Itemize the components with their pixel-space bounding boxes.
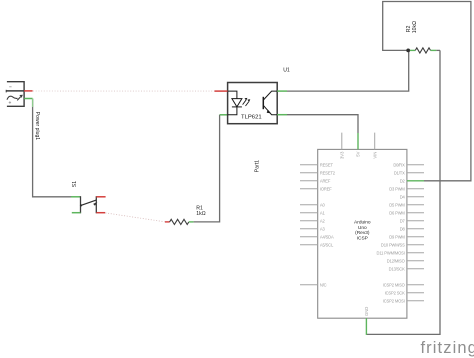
- R1 pin left (red): [165, 221, 170, 223]
- Arduino right pins: [407, 165, 424, 301]
- R2 zigzag: [415, 48, 430, 53]
- R1 pin right (green): [189, 221, 194, 223]
- svg-text:(Rev3): (Rev3): [355, 230, 370, 236]
- svg-text:Power plug1: Power plug1: [34, 112, 40, 140]
- svg-text:D10 PWM/SS: D10 PWM/SS: [381, 242, 405, 247]
- svg-text:ICSP: ICSP: [357, 236, 368, 242]
- svg-text:D5 PWM: D5 PWM: [389, 202, 405, 207]
- wire end green at plug: [32, 99, 34, 108]
- svg-text:TLP621: TLP621: [241, 115, 262, 121]
- svg-text:D6 PWM: D6 PWM: [389, 210, 405, 215]
- S1 pin bottom-left (green): [72, 212, 81, 214]
- S1 right contact bar: [95, 196, 97, 213]
- S1 pin bottom-right (red): [96, 212, 105, 214]
- svg-text:D0/RX: D0/RX: [393, 162, 405, 167]
- svg-text:D11 PWM/MOSI: D11 PWM/MOSI: [377, 250, 405, 255]
- resistor R1 1k: [165, 219, 194, 224]
- svg-text:IOREF: IOREF: [320, 186, 332, 191]
- svg-text:RESET2: RESET2: [320, 170, 336, 175]
- ratsnest switch to R1: [105, 213, 164, 222]
- S1 pin top-right (red): [96, 196, 105, 198]
- svg-text:1kΩ: 1kΩ: [196, 211, 205, 217]
- svg-text:VIN: VIN: [372, 152, 377, 159]
- wire R2 to Arduino GND: [366, 50, 440, 334]
- Arduino left pin labels: [320, 162, 336, 287]
- svg-text:D12/MISO: D12/MISO: [387, 258, 405, 263]
- optocoupler phototransistor Q: [263, 91, 277, 115]
- svg-text:A4/SDA: A4/SDA: [320, 234, 334, 239]
- optocoupler cathode pin (green): [220, 114, 228, 116]
- svg-text:D2: D2: [400, 178, 406, 183]
- wire optocoupler emitter to Arduino 5V: [287, 115, 358, 133]
- svg-text:fritzing: fritzing: [421, 339, 474, 357]
- labels 3V3 5V VIN: [340, 151, 378, 159]
- optocoupler LED emission arrows: [243, 100, 249, 106]
- Arduino D2 pin (green): [407, 180, 424, 182]
- S1 lever arrow: [93, 202, 97, 206]
- svg-text:GND: GND: [364, 307, 369, 316]
- Arduino Uno U2 box: [318, 149, 407, 318]
- svg-text:D7: D7: [400, 218, 406, 223]
- svg-text:Part1: Part1: [254, 160, 260, 172]
- svg-text:ICSP2 SCK: ICSP2 SCK: [385, 290, 405, 295]
- Arduino left pins: [300, 165, 318, 285]
- svg-text:D3 PWM: D3 PWM: [389, 186, 405, 191]
- optocoupler emitter arrow: [267, 110, 271, 114]
- svg-text:D4: D4: [400, 194, 406, 199]
- svg-text:A5/SCL: A5/SCL: [320, 242, 334, 247]
- power plug J1 body: [6, 82, 24, 107]
- svg-text:10kΩ: 10kΩ: [412, 21, 418, 33]
- svg-text:ICSP2 MISO: ICSP2 MISO: [383, 282, 405, 287]
- power plug pin 1 (red, unrouted): [24, 90, 32, 92]
- svg-text:U1: U1: [283, 67, 290, 73]
- svg-text:D9 PWM: D9 PWM: [389, 234, 405, 239]
- R2 pin right (green): [431, 49, 437, 51]
- svg-text:Uno: Uno: [358, 225, 367, 231]
- svg-text:S1: S1: [72, 181, 78, 187]
- junction node: [406, 49, 410, 53]
- svg-text:RESET: RESET: [320, 162, 334, 167]
- wire R1 to optocoupler cathode: [194, 115, 220, 222]
- svg-text:3V3: 3V3: [340, 151, 345, 159]
- svg-text:ICSP2 MOSI: ICSP2 MOSI: [383, 298, 405, 303]
- S1 left contact bar: [80, 196, 82, 213]
- wire plug pin2 to switch S1: [33, 99, 72, 197]
- svg-text:D8: D8: [400, 226, 406, 231]
- power plug sleeve arrow: [19, 95, 23, 98]
- svg-text:D13/SCK: D13/SCK: [389, 266, 405, 271]
- Arduino right pin labels: [377, 162, 406, 303]
- R1 zigzag: [170, 219, 189, 224]
- ratsnest plug pin1 to optocoupler anode: [33, 90, 215, 92]
- wire end green at switch: [71, 196, 81, 198]
- optocoupler LED D: [228, 91, 242, 115]
- svg-text:AREF: AREF: [320, 178, 331, 183]
- optocoupler U1 box: [228, 83, 278, 124]
- switch S1: [72, 196, 106, 213]
- svg-text:Arduino: Arduino: [354, 219, 371, 225]
- label Arduino Uno (Rev3) ICSP: [354, 219, 371, 241]
- svg-text:R2: R2: [406, 25, 412, 32]
- resistor R2 10k: [410, 48, 440, 53]
- optocoupler anode pin (red): [215, 90, 228, 92]
- Arduino top pin 5V (green): [357, 133, 359, 149]
- svg-text:D1/TX: D1/TX: [394, 170, 405, 175]
- Arduino top pins 3V3 VIN: [342, 133, 375, 150]
- optocoupler collector pin (green): [277, 90, 287, 92]
- wire junction to D2 (around top right): [383, 2, 471, 181]
- Arduino GND pin (green): [365, 318, 367, 335]
- svg-text:5V: 5V: [356, 151, 361, 156]
- power plug pin 2 (green, connected): [24, 98, 32, 100]
- optocoupler emitter pin (green): [277, 114, 287, 116]
- wire optocoupler collector to junction: [287, 50, 409, 91]
- S1 lever: [81, 200, 97, 206]
- svg-text:N/C: N/C: [320, 282, 327, 287]
- R2 pin left (green): [410, 49, 415, 51]
